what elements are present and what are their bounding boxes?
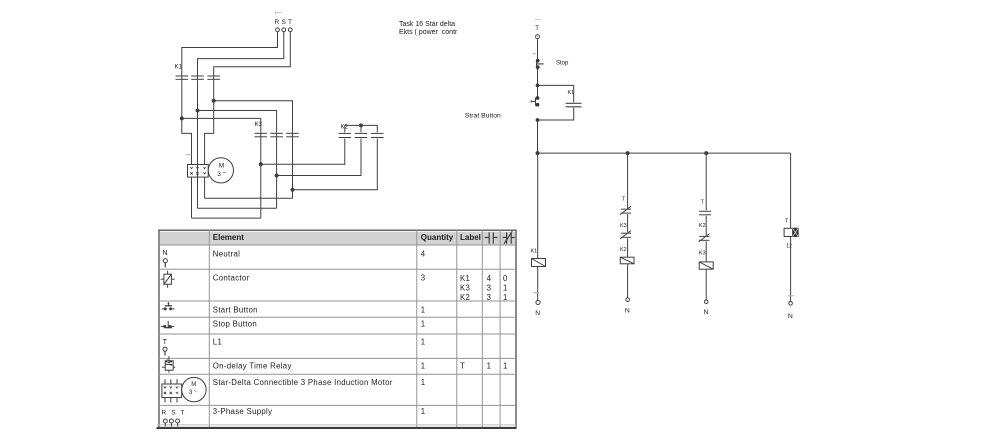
motor terminal box [188, 165, 209, 178]
svg-text:0: 0 [503, 274, 508, 283]
wire L1 to stop button [537, 39, 539, 59]
wire K3-1 to K2 contact 1 [261, 139, 345, 165]
K1 aux contact (hold-in) [566, 103, 582, 107]
return wire motor box 1 [192, 217, 261, 219]
junction dot phase 1 [180, 117, 183, 120]
svg-text:Start Button: Start Button [213, 306, 258, 315]
on-delay NO contact T [699, 211, 711, 215]
svg-text:Label: Label [460, 233, 481, 242]
wire phase2 to K3 contact 2 [198, 111, 277, 133]
svg-text:1: 1 [487, 362, 492, 371]
svg-text:4: 4 [421, 249, 426, 258]
contactor coil K3 [699, 262, 713, 269]
contactor K1 contact 3 [207, 75, 220, 80]
svg-text:Star-Delta Connectible 3 Phase: Star-Delta Connectible 3 Phase Induction… [213, 378, 393, 387]
wire between contacts branch2 [627, 214, 629, 232]
wire phase1 to K3 contact 1 [182, 118, 261, 132]
wire down to bus [537, 120, 539, 153]
svg-text:K1: K1 [568, 90, 575, 96]
row2 texts [213, 274, 508, 302]
svg-text:12: 12 [786, 244, 792, 250]
bus junction dot 1 [536, 152, 539, 155]
table bottom thick border [157, 425, 517, 429]
svg-text:R: R [275, 19, 280, 26]
svg-text:S: S [282, 19, 287, 26]
svg-text:4: 4 [487, 274, 492, 283]
NC contact K2 interlock [699, 234, 710, 242]
wire bus to K1 coil [537, 153, 539, 258]
svg-text:T: T [535, 26, 539, 32]
terminal L1 circle [536, 35, 540, 39]
wire bus to branch 2 [627, 153, 629, 208]
wire K2 coil to N [627, 264, 629, 298]
svg-text:3: 3 [217, 171, 221, 178]
svg-text:1: 1 [421, 362, 426, 371]
supply terminal S [282, 28, 286, 32]
row2 symbol: contactor coil [161, 271, 175, 288]
svg-text:Ekts ( power contr: Ekts ( power contr [399, 29, 458, 36]
junction dot K3-3 [291, 188, 294, 191]
row4 texts [213, 320, 426, 329]
svg-text:1: 1 [421, 407, 426, 416]
svg-text:Stop: Stop [556, 61, 569, 67]
star point bridge wire of K2 [345, 124, 378, 132]
on-delay NC contact T [620, 206, 631, 214]
svg-text:1: 1 [503, 283, 508, 292]
3-phase supply labels R S T [275, 19, 293, 26]
svg-text:K3: K3 [699, 251, 706, 257]
svg-text:K1: K1 [531, 248, 538, 254]
svg-text:K1: K1 [460, 274, 470, 283]
svg-text:Task 16 Star delta: Task 16 Star delta [399, 21, 455, 28]
wire stop to parallel section [537, 66, 539, 98]
contactor K3 contact 1 [255, 132, 268, 138]
wire K3 contact 3 down [292, 138, 294, 199]
supply terminal T [288, 28, 292, 32]
terminal N1 [536, 300, 540, 304]
row4 symbol: stop button [161, 321, 175, 328]
contactor coil K1 [532, 259, 546, 267]
wire K3-3 to K2 contact 3 [293, 139, 378, 190]
wire time relay to N [790, 237, 792, 302]
svg-text:N: N [704, 309, 709, 316]
junction dot top of K1 aux branch [536, 84, 539, 87]
wire K1 contact 1 down to jog and motor box [182, 80, 192, 164]
wire K1 contact 2 down to motor box [197, 80, 199, 164]
wire K3-2 to K2 contact 2 [277, 139, 361, 176]
row6 texts [213, 362, 508, 371]
svg-text:K3: K3 [620, 223, 627, 229]
grid tick mark branch1 [533, 292, 539, 294]
svg-text:Neutral: Neutral [213, 249, 240, 258]
svg-text:N: N [535, 310, 540, 317]
wire K3 coil to N [705, 269, 707, 300]
junction dot K3-2 [275, 174, 278, 177]
wire bus to branch 3 [705, 153, 707, 210]
table header texts [213, 233, 481, 242]
svg-text:~: ~ [223, 171, 227, 177]
svg-text:Element: Element [213, 233, 244, 242]
svg-text:Quantity: Quantity [421, 233, 454, 242]
svg-text:T: T [785, 219, 789, 225]
svg-text:3-Phase Supply: 3-Phase Supply [213, 407, 273, 416]
wire K1 coil to N [537, 267, 539, 301]
svg-text:T: T [622, 197, 626, 203]
faint page mark above supply [276, 13, 282, 15]
wire S to K1 contact 2 [198, 32, 284, 75]
wire to K1 aux contact branch [538, 85, 574, 102]
svg-text:M: M [191, 382, 196, 388]
svg-text:Strat Button: Strat Button [465, 113, 501, 120]
row5 symbol: L1 terminal [163, 337, 168, 356]
contactor K2 contact 3 [371, 133, 384, 137]
wire K3 contact 2 down [276, 138, 278, 208]
wire to K3 coil [705, 241, 707, 262]
row8 texts [213, 407, 426, 416]
contactor K2 contact 1 [339, 133, 352, 137]
svg-text:3: 3 [487, 293, 492, 302]
row1 symbol: neutral terminal [162, 248, 167, 267]
contactor K3 contact 3 [286, 132, 299, 138]
return wire motor box 2 [198, 207, 277, 209]
junction dot bottom of parallel section [536, 119, 539, 122]
bus junction dot 3 [705, 152, 708, 155]
svg-text:K3: K3 [255, 122, 263, 128]
wires through motor box down [192, 165, 205, 219]
row7 symbol: star-delta motor [162, 377, 206, 402]
svg-text:N: N [162, 248, 167, 257]
svg-text:3: 3 [421, 274, 426, 283]
row8 symbol: 3-phase supply [162, 409, 187, 426]
svg-text:1: 1 [421, 306, 426, 315]
wire T to K1 contact 3 [214, 32, 291, 75]
NC contact K3 interlock [620, 231, 631, 239]
row7 texts [213, 378, 426, 387]
supply terminal R [276, 28, 280, 32]
parts table frame [159, 230, 516, 428]
start button S1 [531, 97, 539, 107]
row6 symbol: on-delay time relay coil [162, 356, 175, 372]
motor M 3~ [208, 158, 233, 183]
svg-text:T: T [460, 362, 465, 371]
svg-text:Stop Button: Stop Button [213, 320, 257, 329]
control bus wire [538, 152, 791, 154]
svg-text:M: M [219, 162, 224, 169]
svg-text:~: ~ [194, 389, 197, 395]
contactor K2 contact 2 [355, 133, 368, 137]
on-delay time relay coil T [784, 228, 798, 236]
row3 texts [213, 306, 426, 315]
svg-text:T: T [701, 200, 705, 206]
svg-text:1: 1 [503, 362, 508, 371]
stop button S0 [533, 54, 544, 69]
svg-text:T: T [288, 19, 292, 26]
svg-text:N: N [625, 307, 630, 314]
svg-text:L1: L1 [213, 338, 222, 347]
svg-text:K3: K3 [460, 283, 470, 292]
svg-text:1: 1 [421, 338, 426, 347]
svg-text:1: 1 [503, 293, 508, 302]
svg-text:K2: K2 [460, 293, 470, 302]
wire K1 contact 3 down to jog and motor box [205, 80, 214, 164]
return wire motor box 3 [205, 197, 293, 199]
svg-text:K2: K2 [699, 223, 706, 229]
svg-text:T: T [163, 337, 168, 346]
wire phase3 to K3 contact 3 [214, 101, 293, 133]
contactor K3 contact 2 [270, 132, 283, 138]
svg-text:Contactor: Contactor [213, 274, 250, 283]
svg-text:On-delay Time Relay: On-delay Time Relay [213, 362, 292, 371]
svg-text:R S T: R S T [162, 409, 187, 416]
row1 texts [213, 249, 426, 258]
row3 symbol: start button [162, 302, 175, 310]
junction dot phase 3 [212, 99, 215, 102]
grid tick mark branch4 [788, 295, 794, 297]
wire R to K1 contact 1 [182, 32, 278, 75]
terminal N4 [789, 302, 793, 306]
terminal N2 [626, 298, 630, 302]
row5 texts [213, 338, 426, 347]
junction dot phase 2 [196, 109, 199, 112]
wire between contacts branch3 [705, 216, 707, 236]
faint page mark above control [535, 19, 541, 21]
contactor coil K2 [620, 257, 634, 264]
terminal N3 [704, 300, 708, 304]
grid tick mark left [186, 154, 192, 156]
wire K3 contact 1 down [260, 138, 262, 218]
bus junction dot 2 [626, 152, 629, 155]
svg-text:K1: K1 [175, 65, 183, 71]
wire to K2 coil [627, 238, 629, 257]
header NO contact symbol [485, 232, 498, 243]
svg-text:1: 1 [421, 320, 426, 329]
svg-text:N: N [788, 313, 793, 320]
svg-text:3: 3 [487, 283, 492, 292]
title text [399, 21, 458, 36]
svg-text:K2: K2 [620, 247, 627, 253]
wire K1 aux down to bottom rail [538, 108, 574, 120]
header NC contact symbol [503, 231, 515, 244]
wire bus to time relay coil [790, 153, 792, 228]
junction dot K3-1 [259, 163, 262, 166]
contactor K1 contact 1 [176, 75, 189, 80]
contactor K1 contact 2 [191, 75, 204, 80]
svg-text:1: 1 [421, 378, 426, 387]
